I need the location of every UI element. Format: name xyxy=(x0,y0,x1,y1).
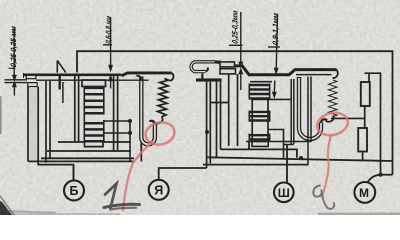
svg-text:0,6-0,8 мм: 0,6-0,8 мм xyxy=(104,15,113,44)
wire M node to terminal M xyxy=(368,175,381,183)
left relay bracket end hook xyxy=(170,73,174,81)
wire top bus corner into M node xyxy=(381,174,393,176)
terminal Ya stub and bus xyxy=(159,168,207,180)
wire R1 bottom to R2 top xyxy=(364,106,366,128)
right relay clip-to-bar tick xyxy=(201,74,203,80)
left relay bobbin bottom plate with notch xyxy=(58,142,131,147)
junction dot R2 wire xyxy=(299,156,303,160)
left relay core right wall xyxy=(114,76,118,151)
svg-text:Ш: Ш xyxy=(278,186,290,200)
right relay frame bar dark xyxy=(196,78,222,81)
scan corner artifact bottom left xyxy=(0,201,12,216)
left relay U strip end curl xyxy=(150,121,155,125)
left relay coil leads to junctions xyxy=(104,121,130,133)
right relay core xyxy=(250,81,272,83)
left relay bottom bus xyxy=(28,160,134,162)
wire R1 top to M riser xyxy=(365,73,381,175)
red pencil line to mark 2 xyxy=(322,135,331,197)
right relay fixed contact block xyxy=(220,69,236,74)
right relay yoke right wall xyxy=(308,77,311,165)
right relay bobbin bottom plate with notch xyxy=(246,142,312,147)
red pencil line to mark 1 xyxy=(123,142,152,210)
right relay frame wall foot xyxy=(284,144,294,146)
terminal Sh circle xyxy=(274,183,294,203)
right relay strip link to contact xyxy=(215,60,222,64)
terminal Sh stub xyxy=(286,145,288,183)
right relay nest line 3 xyxy=(207,157,393,161)
dimension label 0,9-1,1 mm xyxy=(271,12,280,46)
left relay bobbin left flange xyxy=(75,76,79,142)
terminal B stub xyxy=(73,166,75,180)
svg-text:0,9-1,1мм: 0,9-1,1мм xyxy=(271,12,280,46)
svg-text:0,25-0,3мм: 0,25-0,3мм xyxy=(231,10,240,45)
left relay fixed contact post wires to bottom xyxy=(27,87,29,162)
right relay coil lead upper xyxy=(268,98,291,100)
wire U strip to bottom bus xyxy=(140,143,142,161)
dimension label 0,6-0,8 mm xyxy=(104,15,113,44)
red pencil ellipse around left spring hook xyxy=(144,120,177,148)
dimension arrow armature gap right relay xyxy=(268,14,280,97)
right relay armature end hook xyxy=(333,70,338,78)
left relay hinge post xyxy=(59,76,61,90)
right relay clip end hook xyxy=(206,67,208,71)
right relay coil lower turns xyxy=(249,112,271,140)
right relay coil lead lower xyxy=(268,130,284,158)
terminal M circle xyxy=(354,182,375,203)
red pencil ellipse around right spring hook xyxy=(315,110,350,139)
wire resistor R2 bottom to bus xyxy=(362,152,364,160)
right relay tension spring xyxy=(329,80,338,117)
left relay spring lower hook xyxy=(153,117,163,124)
left relay armature bar xyxy=(24,73,122,76)
left relay nest line 2 xyxy=(47,150,131,152)
pencil mark numeral 2 xyxy=(313,186,334,209)
pencil mark numeral 1 xyxy=(104,184,140,210)
right relay nest line 2 xyxy=(221,142,297,158)
dimension arrow contact gap right relay xyxy=(229,12,243,90)
terminal Ya circle xyxy=(149,180,169,200)
right relay bottom bus xyxy=(203,164,309,166)
right relay moving contact block xyxy=(220,62,235,67)
dimension arrow contact gap left relay xyxy=(5,28,28,96)
left relay nest line 3 xyxy=(41,157,134,159)
dimension label 0,25-0,3 mm xyxy=(231,10,240,45)
svg-text:Б: Б xyxy=(70,184,79,198)
right relay spring lower hook xyxy=(326,116,334,122)
junction node wire down to bus xyxy=(129,121,131,161)
resistor R1 xyxy=(361,82,370,106)
left relay tension spring xyxy=(157,78,168,117)
scan bottom edge smudges xyxy=(318,213,400,215)
dimension arrow air gap left relay xyxy=(103,17,112,89)
right relay crossbar xyxy=(210,102,228,104)
wire spring junction to resistor chain xyxy=(331,117,365,119)
junction dot B xyxy=(128,131,132,135)
right relay frame right wall xyxy=(291,79,294,144)
left relay U strip conductor xyxy=(141,77,155,145)
right relay coil side edges xyxy=(249,84,269,141)
left relay coil top plate xyxy=(82,80,106,87)
left relay yoke left wall xyxy=(46,81,50,163)
left relay fixed contact block xyxy=(28,83,37,87)
left relay U arm top hook xyxy=(136,76,141,81)
svg-text:Я: Я xyxy=(154,183,163,197)
left relay post interior tone xyxy=(29,87,37,160)
right relay armature strip Z-section xyxy=(235,66,337,75)
junction dot on yoke wall xyxy=(205,130,209,134)
left relay hinge xyxy=(57,61,66,73)
left relay armature underside line xyxy=(36,79,149,81)
scan edge artifact left xyxy=(0,96,2,134)
dimension label 0,25-0,35 mm xyxy=(9,25,18,68)
junction dot A xyxy=(128,119,132,123)
svg-text:М: М xyxy=(359,186,369,200)
right relay contact post xyxy=(229,74,238,146)
left relay moving contact block xyxy=(26,75,36,78)
left relay coil lower turns xyxy=(84,123,105,141)
right relay U strip conductor xyxy=(299,77,321,139)
left relay coil upper turns xyxy=(84,88,105,113)
right relay coil upper turns xyxy=(249,85,271,98)
left relay spring bracket xyxy=(121,73,171,76)
right relay yoke inner wall xyxy=(217,82,221,157)
top wire from left relay to right side xyxy=(77,51,393,175)
right relay clip strip outer xyxy=(191,62,214,72)
right relay clip strip inner highlight xyxy=(191,62,214,72)
junction dot M node xyxy=(378,173,382,177)
terminal B circle xyxy=(64,180,84,200)
resistor R2 xyxy=(358,128,367,152)
right relay U strip end curl xyxy=(321,119,327,123)
left relay coil side edges xyxy=(84,87,104,142)
right relay armature underside line xyxy=(296,74,332,76)
right relay yoke outer wall / Ya riser xyxy=(207,82,211,168)
